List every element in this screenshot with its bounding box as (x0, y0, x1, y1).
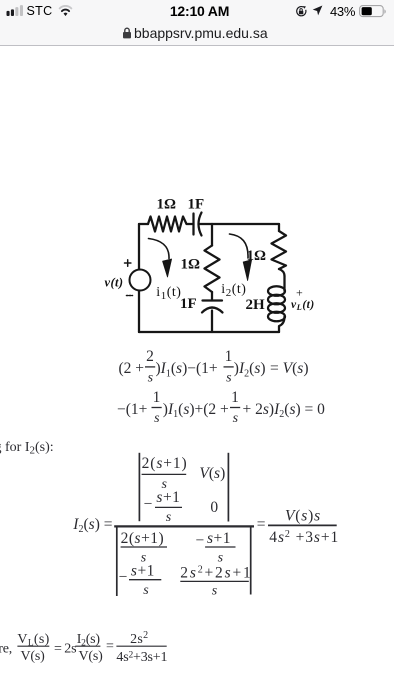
svg-text:(2 +: (2 + (119, 360, 145, 377)
svg-text:2(s+1): 2(s+1) (121, 530, 165, 547)
svg-text:1F: 1F (188, 197, 205, 213)
svg-text:s: s (233, 411, 239, 426)
svg-text:V(s): V(s) (199, 465, 225, 482)
wire R3 to L1 (279, 269, 285, 276)
wire C2 to bottom (211, 311, 213, 333)
svg-text:2s2: 2s2 (130, 630, 148, 647)
svg-text:s+1: s+1 (131, 562, 155, 579)
wire R2 to C2 (211, 292, 213, 301)
resistor R2 1ohm middle (205, 246, 220, 293)
location arrow icon (312, 5, 323, 16)
minus sign of V1 (127, 295, 133, 297)
svg-text:V(s)s: V(s)s (285, 507, 321, 524)
clock time (169, 3, 230, 19)
battery icon (359, 5, 389, 18)
svg-text:+: + (296, 286, 303, 300)
svg-text:=: = (106, 639, 114, 654)
wire left vertical lower (138, 291, 140, 333)
resistor R1 1ohm top (148, 217, 188, 232)
svg-text:2H: 2H (246, 297, 266, 313)
url lock icon (122, 27, 132, 39)
denominator determinant right bar (250, 526, 252, 595)
wire right vertical upper (278, 224, 280, 231)
wire left vertical upper (138, 224, 140, 270)
numerator determinant left bar (138, 453, 140, 521)
svg-text:−: − (196, 532, 205, 549)
numerator determinant right bar (227, 453, 229, 522)
signal bars (6, 4, 26, 17)
svg-text:)I1(s)−(1+: )I1(s)−(1+ (156, 360, 218, 379)
svg-text:1: 1 (225, 348, 233, 365)
svg-text:s+1: s+1 (207, 530, 231, 547)
svg-text:s: s (212, 583, 218, 598)
inductor L1 2H (268, 286, 285, 296)
equation 2 mesh 2: -(1+1/s)I1(s)+(2+1/s+2s)I2(s)=0 (117, 389, 325, 426)
svg-text:)I2(s): )I2(s) (234, 360, 266, 379)
carrier STC (27, 4, 53, 18)
svg-text:V(s): V(s) (21, 649, 46, 664)
svg-text:i2(t): i2(t) (221, 282, 246, 299)
main fraction bar (114, 525, 254, 527)
battery percent (330, 4, 355, 19)
svg-text:s: s (166, 510, 172, 525)
svg-text:1Ω: 1Ω (157, 197, 177, 213)
svg-text:2: 2 (146, 348, 154, 365)
svg-text:= 2s: = 2s (54, 642, 76, 657)
wifi icon (58, 5, 73, 16)
wire bottom horizontal (139, 331, 279, 333)
wire node A down to R2 (211, 224, 213, 246)
capacitor C2 1F middle (203, 299, 223, 301)
svg-text:ore,: ore, (0, 642, 12, 657)
svg-text:V(s): V(s) (79, 649, 104, 664)
svg-text:s+1: s+1 (156, 489, 180, 506)
bottom transfer function line (0, 630, 167, 665)
svg-text:g for I2(s):: g for I2(s): (0, 440, 54, 457)
cramer expression I2(s)=dets (72, 453, 339, 599)
voltage source V1 v(t) (130, 270, 151, 291)
svg-text:vL(t): vL(t) (291, 299, 315, 312)
mesh current arrow i2 (230, 234, 249, 258)
plus sign of V1 (125, 260, 131, 266)
denominator determinant left bar (116, 526, 118, 596)
svg-text:+ 2s)I2(s) = 0: + 2s)I2(s) = 0 (243, 401, 326, 420)
wire L1 to bottom (279, 317, 285, 333)
equation 1 mesh 1: (2+2/s)I1(s)-(1+1/s)I2(s)=V(s) (119, 348, 309, 385)
wire R1 to C1 (188, 223, 194, 225)
svg-text:−: − (119, 569, 128, 586)
svg-text:1Ω: 1Ω (247, 248, 267, 264)
wire C1 to node A (200, 223, 212, 225)
svg-text:=: = (257, 516, 266, 533)
svg-text:s: s (154, 411, 160, 426)
svg-text:I2(s) =: I2(s) = (72, 516, 112, 535)
svg-text:s: s (226, 371, 232, 386)
svg-text:)I1(s)+(2 +: )I1(s)+(2 + (163, 401, 229, 420)
wire top-left horizontal (139, 223, 148, 225)
wire node A to top-right corner (212, 223, 279, 225)
mesh current arrow i1 (149, 239, 170, 259)
svg-text:1F: 1F (180, 296, 197, 312)
capacitor C1 1F top (192, 214, 194, 235)
svg-text:v(t): v(t) (105, 276, 124, 290)
svg-text:0: 0 (210, 499, 218, 516)
svg-text:1: 1 (231, 389, 239, 406)
svg-text:1: 1 (153, 389, 161, 406)
svg-text:1Ω: 1Ω (181, 257, 201, 273)
orientation lock icon (295, 6, 307, 17)
resistor R3 1ohm right (272, 231, 287, 269)
svg-text:= V(s): = V(s) (270, 360, 308, 377)
svg-text:2s2+2s+1: 2s2+2s+1 (180, 564, 252, 581)
svg-text:4s2 +3s+1: 4s2 +3s+1 (269, 529, 339, 546)
heading: for I2(s): (0, 440, 54, 457)
url text (134, 25, 268, 41)
svg-text:s: s (218, 550, 224, 565)
svg-text:4s2+3s+1: 4s2+3s+1 (116, 650, 167, 665)
svg-text:s: s (143, 583, 149, 598)
svg-text:−: − (144, 496, 153, 513)
svg-text:2(s+1): 2(s+1) (142, 455, 188, 472)
svg-text:i1(t): i1(t) (156, 285, 181, 302)
svg-text:−(1+: −(1+ (117, 401, 147, 418)
svg-text:s: s (148, 371, 154, 386)
